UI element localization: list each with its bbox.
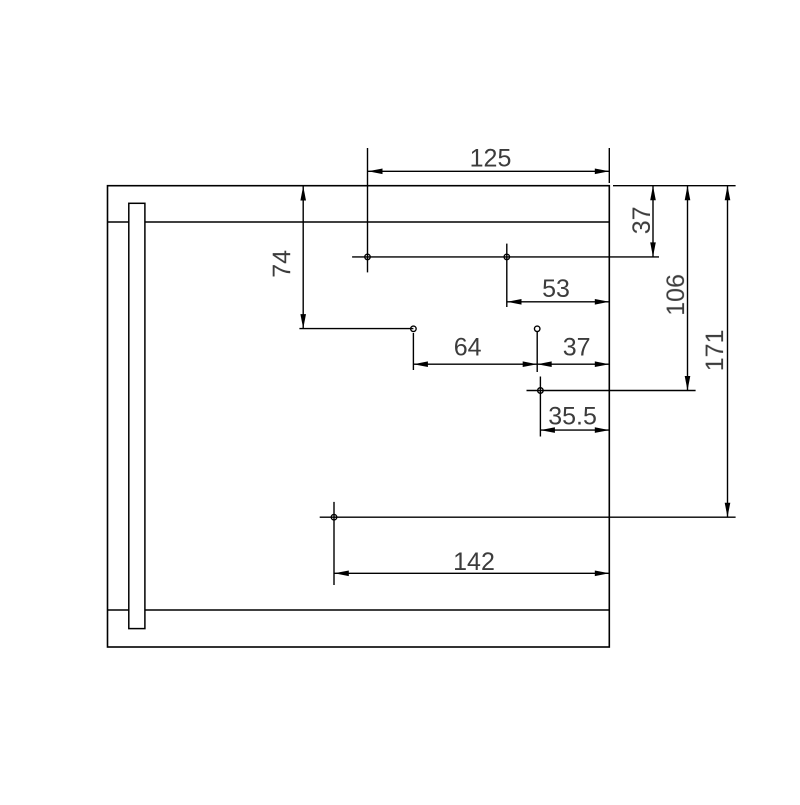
dim 74 line bbox=[302, 186, 304, 329]
dim 171 line bbox=[727, 186, 729, 518]
dim 53 right arrow bbox=[595, 299, 610, 305]
dim 106 line bbox=[687, 186, 689, 391]
dim 64 right arrow bbox=[523, 361, 538, 367]
svg-text:74: 74 bbox=[268, 250, 296, 278]
svg-text:37: 37 bbox=[628, 206, 656, 234]
dim 74 top arrow bbox=[300, 186, 306, 201]
dim 64 left arrow bbox=[413, 361, 428, 367]
dim 142 right arrow bbox=[595, 571, 610, 577]
hole P1 bbox=[365, 254, 371, 260]
bottom rail line bbox=[108, 609, 610, 611]
svg-text:171: 171 bbox=[701, 330, 729, 372]
dim 37 right top arrow bbox=[650, 186, 656, 201]
dim 125 left arrow bbox=[368, 169, 383, 175]
extension line E1 (left of dim 125, through hole P1) bbox=[367, 148, 369, 272]
point P6 bbox=[331, 514, 337, 520]
point P6 axis horizontal bbox=[320, 516, 736, 518]
panel outline bbox=[108, 186, 610, 647]
extension line E8 (below hole P4) bbox=[536, 332, 538, 372]
dim 35.5 line bbox=[540, 429, 609, 431]
svg-text:35.5: 35.5 bbox=[548, 403, 597, 431]
left slot bbox=[129, 203, 145, 628]
svg-text:142: 142 bbox=[453, 548, 495, 576]
dim 171 top arrow bbox=[725, 186, 731, 201]
dim 64-37 line bbox=[413, 363, 609, 365]
dim 37 mid left arrow bbox=[537, 361, 552, 367]
dim 35.5 right arrow bbox=[595, 427, 610, 433]
svg-text:37: 37 bbox=[563, 333, 591, 361]
dim 171 bottom arrow bbox=[725, 503, 731, 518]
svg-text:64: 64 bbox=[454, 333, 482, 361]
dim 74 bottom arrow bbox=[300, 314, 306, 329]
dim 142 left arrow bbox=[334, 571, 349, 577]
dim 53 left arrow bbox=[507, 299, 522, 305]
hole axis line E4 (through P1,P2 extended right) bbox=[352, 256, 659, 258]
point P6 axis vertical bbox=[333, 502, 335, 585]
dim 37 right bottom arrow bbox=[650, 242, 656, 257]
dim 106 top arrow bbox=[685, 186, 691, 201]
dim 142 line bbox=[334, 572, 609, 574]
svg-text:53: 53 bbox=[542, 275, 570, 303]
dim 35.5 left arrow bbox=[540, 427, 555, 433]
dim 125 line bbox=[368, 170, 609, 172]
point P5 axis vertical bbox=[539, 377, 541, 437]
dim 37 right line bbox=[652, 186, 654, 257]
extension line E7 (below hole P3) bbox=[412, 333, 414, 370]
svg-text:125: 125 bbox=[470, 145, 512, 173]
hole P4 bbox=[534, 326, 540, 332]
hole P2 bbox=[504, 254, 510, 260]
extension line E2 (right edge extended up) bbox=[608, 148, 610, 183]
dim 53 line bbox=[507, 301, 609, 303]
dim 125 right arrow bbox=[595, 169, 610, 175]
svg-text:106: 106 bbox=[662, 274, 690, 316]
dim 106 bottom arrow bbox=[685, 376, 691, 391]
extension line E3 (top edge extended right) bbox=[613, 185, 736, 187]
point P5 bbox=[538, 388, 544, 394]
top rail line bbox=[108, 221, 610, 223]
hole P3 bbox=[411, 326, 417, 332]
extension line E6 (left from hole P3 to dim 74) bbox=[299, 328, 413, 330]
point P5 axis horizontal bbox=[527, 390, 696, 392]
extension line E5 (below hole P2) bbox=[506, 244, 508, 307]
dim 37 mid right arrow bbox=[595, 361, 610, 367]
